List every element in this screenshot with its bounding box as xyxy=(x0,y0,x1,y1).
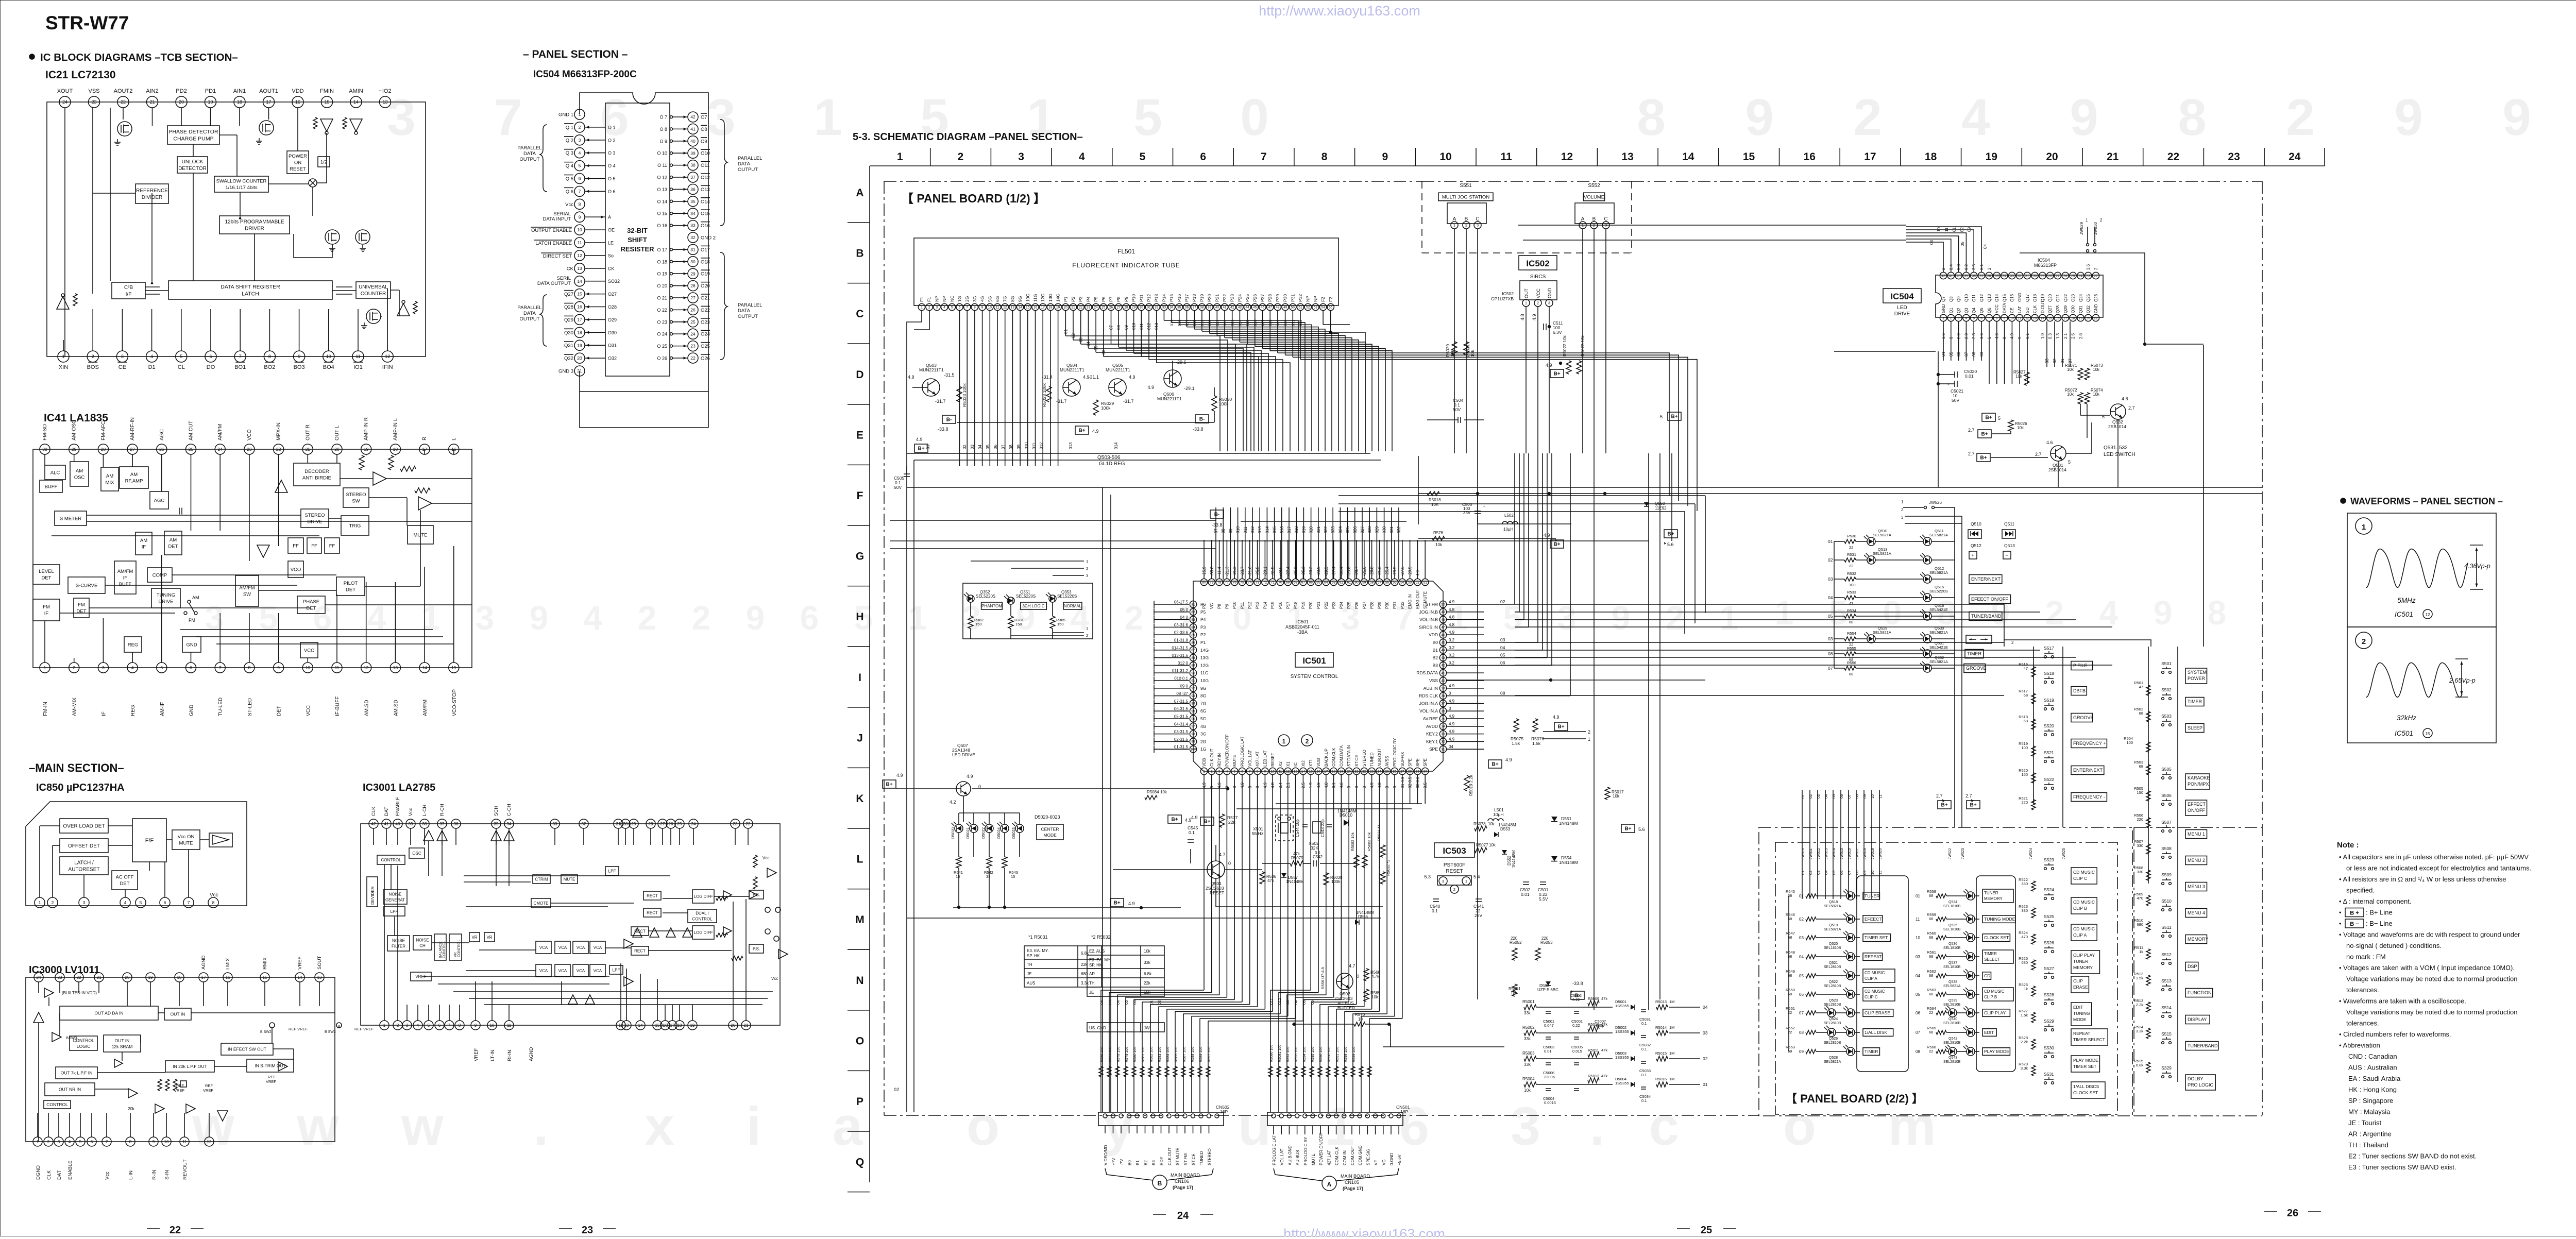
svg-text:68: 68 xyxy=(1929,935,1933,940)
svg-text:8: 8 xyxy=(579,201,581,207)
svg-text:TIMER SET: TIMER SET xyxy=(1865,935,1888,940)
svg-text:OUTPUT: OUTPUT xyxy=(519,157,539,162)
svg-text:023: 023 xyxy=(1230,319,1235,326)
svg-text:Q 2: Q 2 xyxy=(566,138,573,143)
svg-text:06: 06 xyxy=(1132,1000,1137,1005)
svg-text:10: 10 xyxy=(577,227,582,232)
svg-text:23: 23 xyxy=(690,344,696,349)
resistor R5075 1.5k xyxy=(1511,719,1523,746)
svg-text:5-3. SCHEMATIC DIAGRAM –PANEL: 5-3. SCHEMATIC DIAGRAM –PANEL SECTION– xyxy=(853,131,1083,143)
svg-text:JE: JE xyxy=(1089,990,1094,995)
svg-text:52: 52 xyxy=(1416,581,1420,584)
svg-text:GL1D REG: GL1D REG xyxy=(1099,461,1125,467)
svg-text:80: 80 xyxy=(1202,581,1206,584)
svg-text:4: 4 xyxy=(1965,316,1968,320)
svg-text:06-17.5: 06-17.5 xyxy=(1174,600,1189,605)
svg-text:AUS: AUS xyxy=(1027,981,1035,986)
svg-text:A: A xyxy=(856,187,863,199)
IC3000 misc symbols xyxy=(33,988,374,1121)
svg-text:3: 3 xyxy=(58,1140,60,1144)
svg-text:5: 5 xyxy=(79,1140,82,1144)
svg-text:S527: S527 xyxy=(2044,966,2054,971)
svg-text:02-33.6: 02-33.6 xyxy=(1174,631,1189,635)
op IC501 system control body xyxy=(1193,581,1443,771)
svg-text:22: 22 xyxy=(77,975,81,980)
svg-text:39: 39 xyxy=(690,150,696,156)
svg-text:STEREO: STEREO xyxy=(1208,1148,1212,1165)
svg-text:19: 19 xyxy=(577,343,582,348)
svg-text:R5013: R5013 xyxy=(1655,999,1667,1004)
svg-text:B2: B2 xyxy=(1433,655,1438,660)
svg-text:1k: 1k xyxy=(2139,949,2143,954)
svg-text:L: L xyxy=(857,854,863,865)
svg-text:06: 06 xyxy=(1799,992,1804,997)
IC503 boxed label xyxy=(1434,843,1475,857)
svg-text:CN105: CN105 xyxy=(1345,1180,1359,1185)
svg-text:CE: CE xyxy=(2010,308,2014,313)
svg-text:470: 470 xyxy=(2021,935,2028,939)
svg-text:6: 6 xyxy=(579,176,581,181)
capacitor C511 100 6.3V xyxy=(1544,320,1563,335)
svg-text:PHASE DETECTOR: PHASE DETECTOR xyxy=(168,129,218,135)
svg-text:5G: 5G xyxy=(987,296,992,302)
svg-text:ENABLE: ENABLE xyxy=(395,797,401,817)
svg-text:06: 06 xyxy=(1101,350,1106,354)
svg-text:R591 100: R591 100 xyxy=(1336,1047,1340,1062)
svg-text:CLK: CLK xyxy=(371,806,377,816)
svg-text:tolerances.: tolerances. xyxy=(2346,1020,2379,1027)
svg-text:220: 220 xyxy=(2021,800,2028,805)
svg-text:8G: 8G xyxy=(1010,296,1015,302)
svg-text:2: 2 xyxy=(1853,89,1882,146)
svg-text:MULTI JOG STATION: MULTI JOG STATION xyxy=(1442,194,1490,200)
svg-text:2: 2 xyxy=(1086,566,1088,571)
svg-text:SEL5821A: SEL5821A xyxy=(1824,928,1841,931)
svg-text:5: 5 xyxy=(2068,460,2071,465)
svg-text:010: 010 xyxy=(1132,323,1137,330)
IC501 part number text xyxy=(1285,619,1319,635)
svg-text:OUT L: OUT L xyxy=(334,425,340,440)
svg-text:0.1: 0.1 xyxy=(1641,1047,1647,1051)
svg-text:03: 03 xyxy=(1799,936,1804,940)
svg-text:LPF: LPF xyxy=(613,968,620,972)
svg-text:30: 30 xyxy=(623,822,628,826)
svg-text:68: 68 xyxy=(1929,992,1933,996)
svg-text:ENABLE: ENABLE xyxy=(67,1161,73,1180)
svg-text:O 22: O 22 xyxy=(657,308,667,313)
waveform box 1 xyxy=(2347,513,2496,627)
IC3001 block PS 2 xyxy=(749,944,764,953)
svg-text:AM: AM xyxy=(106,473,113,479)
svg-text:PON/MPX: PON/MPX xyxy=(2188,782,2209,787)
svg-text:22: 22 xyxy=(276,447,281,452)
svg-text:04: 04 xyxy=(1500,645,1505,650)
svg-text:99: 99 xyxy=(1191,740,1195,744)
svg-text:OVER LOAD DET: OVER LOAD DET xyxy=(63,824,105,829)
svg-text:: B− Line: : B− Line xyxy=(2366,920,2393,927)
svg-text:2G: 2G xyxy=(964,296,970,302)
resistor R5028 100k xyxy=(1042,383,1052,407)
svg-text:C543 22p: C543 22p xyxy=(1320,819,1325,837)
svg-text:36: 36 xyxy=(1987,274,1991,278)
svg-text:07: 07 xyxy=(1109,325,1114,330)
svg-text:03: 03 xyxy=(970,445,975,449)
svg-text:S514: S514 xyxy=(2161,1005,2172,1010)
svg-text:4.9: 4.9 xyxy=(1532,314,1537,320)
svg-text:10k: 10k xyxy=(2093,392,2100,397)
svg-text:Vcc: Vcc xyxy=(408,808,414,816)
svg-text:16P: 16P xyxy=(1220,1109,1228,1114)
svg-text:D552: D552 xyxy=(1507,855,1512,865)
svg-text:IF: IF xyxy=(44,611,49,617)
IC3000 block 7k LPF xyxy=(56,1067,97,1079)
svg-text:COMP: COMP xyxy=(152,572,167,578)
svg-text:7: 7 xyxy=(494,89,522,146)
svg-text:IF: IF xyxy=(142,545,146,550)
svg-text:SEL5821A: SEL5821A xyxy=(1929,659,1948,664)
svg-text:62: 62 xyxy=(1340,581,1344,584)
svg-text:23: 23 xyxy=(733,822,738,826)
svg-text:B SW2: B SW2 xyxy=(325,1030,336,1034)
svg-text:27: 27 xyxy=(130,447,135,452)
IC502 SIRCS receiver xyxy=(1491,274,1557,453)
svg-text:1N4148M: 1N4148M xyxy=(1356,910,1374,915)
svg-text:DIRECT SET: DIRECT SET xyxy=(543,253,572,259)
svg-text:SPE: SPE xyxy=(1408,758,1413,767)
svg-text:67: 67 xyxy=(1301,581,1306,584)
IC41 block DECODER ANTI BIRDIE xyxy=(294,463,340,486)
svg-text:7G: 7G xyxy=(1003,296,1008,302)
svg-text:P12: P12 xyxy=(1146,294,1151,302)
svg-text:05: 05 xyxy=(986,445,990,449)
diode D555 1N4148M mid xyxy=(1355,910,1374,925)
svg-text:34: 34 xyxy=(1170,305,1174,309)
svg-text:28: 28 xyxy=(2048,274,2053,278)
svg-text:6: 6 xyxy=(959,305,961,309)
svg-text:E2. AUS: E2. AUS xyxy=(1089,949,1105,954)
svg-text:P6: P6 xyxy=(1101,296,1106,302)
svg-text:5.6: 5.6 xyxy=(1667,542,1674,547)
resistor R5020 10k xyxy=(1445,342,1457,357)
svg-text:05 0: 05 0 xyxy=(1180,607,1188,612)
svg-text:35: 35 xyxy=(494,822,499,826)
svg-text:AUTORESET: AUTORESET xyxy=(69,867,100,873)
svg-text:EFEECT ON/OFF: EFEECT ON/OFF xyxy=(1971,597,2008,602)
svg-text:AUB.OUT: AUB.OUT xyxy=(1377,748,1382,767)
svg-text:Q28: Q28 xyxy=(2056,305,2060,313)
IC21 mosfet pair mid xyxy=(325,230,370,251)
svg-text:1: 1 xyxy=(1465,879,1467,884)
svg-text:23: 23 xyxy=(58,975,62,980)
svg-text:SYSTEM CONTROL: SYSTEM CONTROL xyxy=(1291,674,1338,680)
svg-text:09: 09 xyxy=(1862,794,1867,799)
svg-text:27: 27 xyxy=(1400,770,1404,773)
svg-text:29: 29 xyxy=(1132,305,1136,309)
svg-text:15: 15 xyxy=(1309,770,1313,773)
watermark bottom url xyxy=(1283,1226,1445,1239)
svg-text:MAIN BOARD: MAIN BOARD xyxy=(1341,1174,1370,1179)
svg-text:-31.1: -31.1 xyxy=(1088,375,1099,380)
boxed labels ENTER/NEXT etc xyxy=(1964,575,2011,673)
svg-text:C542: C542 xyxy=(1313,855,1323,859)
svg-text:05: 05 xyxy=(1310,1000,1315,1005)
svg-text:E3. EA. MY.: E3. EA. MY. xyxy=(1027,948,1049,953)
svg-text:FF: FF xyxy=(329,543,335,549)
svg-text:O 3: O 3 xyxy=(608,150,616,156)
svg-text:VOLUME: VOLUME xyxy=(1584,194,1604,200)
svg-text:3: 3 xyxy=(1218,770,1221,773)
svg-text:J: J xyxy=(857,732,863,744)
svg-text:B+: B+ xyxy=(1980,455,1987,461)
svg-text:P10: P10 xyxy=(1131,294,1137,302)
svg-text:4.9: 4.9 xyxy=(1092,429,1099,434)
resistors R5052 R5053 220 xyxy=(1510,936,1553,960)
svg-text:MUN2211T1: MUN2211T1 xyxy=(1060,367,1084,372)
svg-text:1: 1 xyxy=(1086,626,1088,631)
svg-text:JW529: JW529 xyxy=(2079,222,2084,235)
svg-text:25: 25 xyxy=(1101,305,1106,309)
svg-text:1N4148M: 1N4148M xyxy=(1559,860,1578,865)
svg-text:P28: P28 xyxy=(1267,294,1273,302)
capacitor C540 0.1 xyxy=(1430,899,1440,913)
svg-text:30: 30 xyxy=(690,259,696,264)
svg-text:2: 2 xyxy=(579,125,581,130)
svg-text:DATA INPUT: DATA INPUT xyxy=(543,216,571,222)
svg-text:14: 14 xyxy=(1301,770,1306,773)
svg-text:8: 8 xyxy=(459,1023,461,1028)
node B+ 5.6 xyxy=(1621,824,1645,833)
svg-text:28: 28 xyxy=(690,283,696,288)
svg-text:7: 7 xyxy=(219,665,222,670)
svg-text:08: 08 xyxy=(1500,691,1505,696)
svg-text:Q18: Q18 xyxy=(2033,294,2038,302)
svg-text:O27: O27 xyxy=(608,292,617,297)
svg-text:27: 27 xyxy=(660,822,665,826)
svg-text:MUN2211T1: MUN2211T1 xyxy=(1106,367,1130,372)
svg-text:32: 32 xyxy=(1155,305,1159,309)
IC501 right pins 50-31 xyxy=(1416,599,1515,753)
svg-text:52: 52 xyxy=(1306,305,1310,309)
svg-text:FL501: FL501 xyxy=(1117,248,1135,255)
svg-text:P5: P5 xyxy=(1093,296,1098,302)
svg-text:21: 21 xyxy=(97,975,101,980)
svg-text:IC502: IC502 xyxy=(1526,259,1549,268)
svg-text:R-IN: R-IN xyxy=(151,1169,157,1180)
IC3001 block NOISE GENERAT xyxy=(383,890,407,904)
svg-text:05: 05 xyxy=(1832,871,1836,875)
svg-text:4.7: 4.7 xyxy=(1349,963,1355,969)
svg-text:GND: GND xyxy=(1941,304,1946,313)
svg-text:R554: R554 xyxy=(1847,631,1856,636)
svg-text:12G: 12G xyxy=(1200,663,1209,668)
svg-text:R584 100: R584 100 xyxy=(1166,1047,1170,1062)
svg-text:21: 21 xyxy=(744,1023,749,1028)
IC41 block COMP xyxy=(147,568,172,582)
svg-text:10: 10 xyxy=(1870,794,1875,799)
svg-text:1: 1 xyxy=(897,151,903,163)
svg-text:P14: P14 xyxy=(1263,601,1267,609)
svg-text:47k: 47k xyxy=(1267,878,1275,883)
svg-text:TIMER SELECT: TIMER SELECT xyxy=(2073,1037,2105,1042)
diode D554 1N4148M xyxy=(1551,855,1578,865)
svg-text:w: w xyxy=(296,1096,339,1157)
svg-text:9: 9 xyxy=(2394,89,2423,146)
IC41 block ALC xyxy=(45,465,65,480)
svg-text:10k: 10k xyxy=(1144,949,1151,954)
title STR-W77 xyxy=(45,12,129,33)
transistor Q502 2SC2603 AU BUS BUFFER xyxy=(1320,963,1381,1010)
thick bus line IC504 xyxy=(2020,253,2204,346)
page number 26 xyxy=(2264,1208,2321,1219)
svg-text:150: 150 xyxy=(975,622,982,626)
svg-text:O 17: O 17 xyxy=(657,247,667,252)
svg-text:38: 38 xyxy=(690,163,696,168)
svg-text:IN 20k L.P.F OUT: IN 20k L.P.F OUT xyxy=(173,1064,207,1069)
svg-text:DATA SHIFT REGISTER: DATA SHIFT REGISTER xyxy=(221,284,280,290)
svg-text:O13: O13 xyxy=(701,187,710,193)
svg-text:09: 09 xyxy=(1799,1049,1804,1054)
svg-text:Q4: Q4 xyxy=(1972,308,1976,313)
svg-text:220: 220 xyxy=(2137,817,2143,822)
transistor Q531 2SB1014 xyxy=(2035,440,2071,472)
svg-text:17: 17 xyxy=(266,99,271,105)
svg-text:CLIP C: CLIP C xyxy=(1865,995,1878,999)
svg-text:2SB1014: 2SB1014 xyxy=(2048,467,2066,472)
svg-text:07: 07 xyxy=(1828,666,1833,671)
svg-text:P17: P17 xyxy=(1184,294,1190,302)
IC3000 block 12k SRAM xyxy=(104,1035,141,1052)
svg-text:66: 66 xyxy=(1309,581,1313,584)
svg-text:R595 100: R595 100 xyxy=(1311,1047,1315,1062)
svg-text:RF.AMP: RF.AMP xyxy=(125,479,143,484)
svg-text:4: 4 xyxy=(417,1023,419,1028)
svg-text:4: 4 xyxy=(579,150,581,156)
svg-text:FREQVENCY +: FREQVENCY + xyxy=(2073,741,2106,746)
svg-text:SEL1810B: SEL1810B xyxy=(1943,946,1961,950)
IC502 boxed label xyxy=(1519,256,1557,270)
IC504 bottom wire xyxy=(580,392,708,428)
svg-text:OUT R: OUT R xyxy=(305,425,311,440)
svg-text:R-CH: R-CH xyxy=(439,804,445,816)
svg-text:100k: 100k xyxy=(1219,401,1229,406)
svg-text:011-31.2: 011-31.2 xyxy=(1172,669,1189,673)
svg-text:CLIP C: CLIP C xyxy=(2073,876,2087,881)
svg-text:D.OUT: D.OUT xyxy=(2040,300,2045,313)
svg-text:MUTE: MUTE xyxy=(1232,755,1237,767)
svg-text:Q528: Q528 xyxy=(1829,1056,1838,1060)
svg-text:XOUT: XOUT xyxy=(57,88,73,94)
svg-text:026: 026 xyxy=(1253,319,1258,326)
svg-text:UNIVERSAL: UNIVERSAL xyxy=(359,284,388,290)
svg-text:PROLOGIC.LAT: PROLOGIC.LAT xyxy=(1272,1135,1277,1165)
svg-text:14: 14 xyxy=(577,279,582,284)
svg-text:REF: REF xyxy=(268,1075,276,1079)
svg-text:11: 11 xyxy=(1878,794,1883,799)
svg-text:AM: AM xyxy=(192,595,199,600)
svg-text:P1: P1 xyxy=(1200,640,1206,645)
svg-text:S503: S503 xyxy=(2161,714,2172,719)
svg-text:6G: 6G xyxy=(995,296,1000,302)
svg-text:12: 12 xyxy=(577,253,582,258)
svg-text:10: 10 xyxy=(1358,1017,1363,1022)
svg-text:STR-W77: STR-W77 xyxy=(45,12,129,33)
svg-text:1: 1 xyxy=(1588,737,1590,742)
svg-text:9G: 9G xyxy=(1200,686,1206,691)
svg-text:3: 3 xyxy=(205,599,224,637)
svg-text:22: 22 xyxy=(1079,305,1083,309)
IC21 mixer node xyxy=(309,179,317,187)
svg-text:02: 02 xyxy=(1828,557,1833,563)
svg-text:29: 29 xyxy=(1416,770,1420,773)
svg-text:88: 88 xyxy=(1191,656,1195,660)
svg-text:Q 5: Q 5 xyxy=(566,176,573,182)
svg-text:0.1: 0.1 xyxy=(1641,1098,1647,1103)
svg-text:AM: AM xyxy=(170,537,177,543)
svg-text:O 15: O 15 xyxy=(657,211,667,216)
svg-text:1: 1 xyxy=(421,599,440,637)
svg-text:SEL5821A: SEL5821A xyxy=(1929,630,1948,635)
svg-text:B +: B + xyxy=(2350,910,2359,916)
svg-text:56: 56 xyxy=(1385,581,1389,584)
svg-text:R579 100: R579 100 xyxy=(1125,1047,1129,1062)
svg-text:JOG.IN.A: JOG.IN.A xyxy=(1419,701,1438,706)
svg-text:1: 1 xyxy=(1775,593,1794,632)
svg-text:16: 16 xyxy=(1804,151,1816,163)
resistor bundle R586-R599 xyxy=(1099,1000,1211,1112)
svg-text:20: 20 xyxy=(179,99,184,105)
svg-text:JW525: JW525 xyxy=(2062,848,2066,859)
svg-text:47: 47 xyxy=(1849,601,1853,606)
svg-text:9: 9 xyxy=(1745,89,1774,146)
svg-text:SEL5220S: SEL5220S xyxy=(976,594,995,599)
svg-text:AR: AR xyxy=(1089,972,1095,976)
svg-text:3: 3 xyxy=(1018,151,1024,163)
svg-text:P5: P5 xyxy=(1200,609,1206,615)
svg-text:30: 30 xyxy=(2033,274,2037,278)
svg-text:97: 97 xyxy=(1191,725,1195,728)
svg-text:20: 20 xyxy=(1064,305,1068,309)
svg-text:15: 15 xyxy=(451,665,456,670)
svg-text:5: 5 xyxy=(160,665,163,670)
svg-text:F/F: F/F xyxy=(145,838,154,844)
svg-text:7: 7 xyxy=(579,189,581,194)
svg-text:13: 13 xyxy=(1011,305,1015,309)
svg-text:68: 68 xyxy=(1788,973,1792,978)
svg-text:10: 10 xyxy=(1937,227,1941,232)
svg-text:10: 10 xyxy=(1870,871,1875,875)
svg-text:68: 68 xyxy=(1788,992,1792,996)
svg-text:24: 24 xyxy=(691,822,696,826)
svg-text:14: 14 xyxy=(298,975,302,980)
svg-text:4: 4 xyxy=(69,1140,71,1144)
svg-text:Q519: Q519 xyxy=(1829,924,1838,927)
IC21 mosfet near pin17 xyxy=(256,121,274,144)
svg-text:Q531. 532: Q531. 532 xyxy=(2104,445,2128,451)
op IC3000 outer box xyxy=(26,977,335,1142)
IC41 block TRIG xyxy=(341,516,369,535)
svg-text:15: 15 xyxy=(2048,316,2053,320)
svg-text:PARALLEL: PARALLEL xyxy=(517,305,541,311)
svg-text:02: 02 xyxy=(1071,333,1076,338)
svg-text:CLIP PLAY: CLIP PLAY xyxy=(1984,1010,2006,1015)
svg-text:1: 1 xyxy=(1942,316,1944,320)
svg-text:TUNER: TUNER xyxy=(1984,891,1998,895)
svg-text:4: 4 xyxy=(943,305,945,309)
svg-text:SEL5821A: SEL5821A xyxy=(1873,533,1891,537)
svg-text:47: 47 xyxy=(2024,666,2028,671)
wires from S551/S552 down xyxy=(1454,229,1606,773)
svg-text:18: 18 xyxy=(237,99,242,105)
